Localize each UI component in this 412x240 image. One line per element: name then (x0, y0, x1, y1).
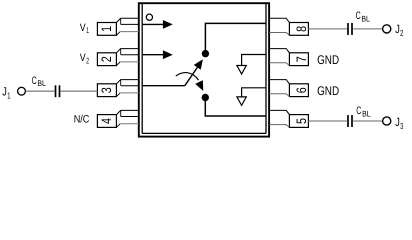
pin 1 (97, 18, 138, 35)
svg-text:3: 3 (400, 121, 403, 131)
IC body inner left edge (141, 3, 143, 133)
capacitor CBL bottom right plate 2 (351, 115, 353, 127)
wire capacitor to J2 (353, 28, 382, 30)
svg-text:BL: BL (362, 109, 371, 118)
IC body inner bottom edge (142, 132, 266, 134)
svg-text:8: 8 (294, 26, 309, 32)
wire capacitor to J3 (353, 120, 382, 122)
switch bottom throw contact node (202, 94, 209, 101)
svg-text:BL: BL (37, 79, 46, 88)
connector J2 circle (383, 25, 391, 33)
pin 8 (269, 18, 308, 35)
svg-text:1: 1 (99, 26, 114, 32)
capacitor CBL bottom right plate 1 (347, 115, 349, 127)
wire from bottom contact to pin 5 (205, 98, 266, 117)
ground symbol at pin 6 (237, 88, 266, 106)
switch pole wire from pin 3 (142, 85, 185, 87)
svg-text:4: 4 (99, 118, 114, 124)
svg-text:GND: GND (317, 84, 339, 98)
capacitor CBL top right plate 1 (347, 23, 349, 35)
pin 2 (97, 49, 138, 66)
wire from top contact to pin 8 (205, 23, 266, 53)
capacitor CBL left plate 1 (55, 85, 57, 97)
svg-text:BL: BL (361, 15, 370, 24)
svg-text:C: C (32, 75, 37, 87)
svg-text:5: 5 (294, 118, 309, 124)
pin 5 (269, 110, 308, 127)
pin 4 (97, 110, 138, 127)
switch actuation arc with arrowhead toward bottom contact (176, 73, 204, 91)
svg-text:7: 7 (294, 56, 309, 62)
wire pin 5 to capacitor CBL bottom right (308, 120, 347, 122)
switch arm with arrowhead toward top contact (185, 59, 203, 85)
svg-text:2: 2 (99, 56, 114, 62)
wire pin 8 to capacitor CBL top right (308, 28, 347, 30)
pin 1 indicator circle (146, 14, 152, 20)
svg-text:N/C: N/C (74, 114, 90, 126)
input arrow pin2 (142, 50, 173, 59)
IC body inner right edge (265, 3, 267, 133)
svg-text:2: 2 (86, 56, 89, 65)
wire capacitor to pin 3 (61, 90, 98, 92)
pin 7 (269, 49, 308, 66)
connector J1 circle (18, 87, 26, 95)
svg-text:1: 1 (7, 90, 10, 100)
capacitor CBL top right plate 2 (351, 23, 353, 35)
svg-text:C: C (356, 10, 361, 22)
input arrow pin1 (142, 20, 173, 29)
wire J1 to capacitor CBL (26, 90, 55, 92)
svg-text:C: C (356, 105, 361, 117)
svg-text:1: 1 (86, 26, 89, 35)
capacitor CBL left plate 2 (59, 85, 61, 97)
pin 3 (97, 80, 138, 97)
pin 6 (269, 80, 308, 97)
switch top throw contact node (202, 50, 209, 57)
IC body U1 outer outline (139, 3, 269, 136)
connector J3 circle (383, 117, 391, 125)
svg-text:6: 6 (294, 87, 309, 93)
svg-text:3: 3 (99, 87, 114, 93)
svg-text:GND: GND (317, 53, 339, 67)
svg-text:2: 2 (400, 28, 403, 38)
ground symbol at pin 7 (237, 55, 266, 75)
